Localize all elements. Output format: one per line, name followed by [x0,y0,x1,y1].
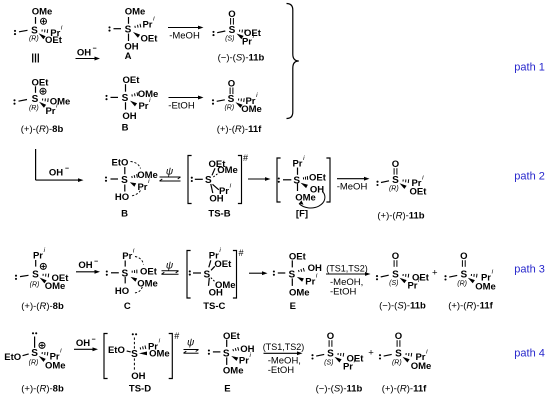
svg-text:Pr: Pr [142,19,152,30]
svg-text:OMe: OMe [125,7,146,18]
svg-text:S: S [31,348,38,359]
svg-text:B: B [121,208,128,219]
arrow -MeOH row2 [337,177,370,193]
svg-text:-MeOH: -MeOH [169,31,200,42]
svg-text:(−)-(S)-11b: (−)-(S)-11b [218,53,265,64]
svg-text:OMe: OMe [223,366,244,377]
svg-text:OMe: OMe [241,104,262,115]
svg-text:path 4: path 4 [514,348,545,360]
arrow OH- (III to A) [76,46,101,61]
svg-text:-MeOH: -MeOH [337,182,368,193]
svg-text:OEt: OEt [289,251,307,262]
svg-text:(R): (R) [29,36,39,43]
svg-text:OMe: OMe [411,361,432,372]
TBP intermediate C [106,248,158,312]
svg-text:(R): (R) [389,185,399,192]
svg-text:(S): (S) [225,36,234,43]
svg-text:path 2: path 2 [514,171,545,183]
svg-text:OH: OH [240,344,254,355]
svg-text:OMe: OMe [217,165,238,176]
svg-text:+: + [432,268,438,279]
svg-text:OH: OH [308,263,322,274]
arrow OH- row4 [74,336,98,351]
svg-text:(R): (R) [224,105,234,112]
svg-text:OH: OH [209,287,223,298]
svg-text:S: S [229,25,236,36]
svg-text:(+)-(R)-11f: (+)-(R)-11f [448,301,493,312]
svg-text:(+)-(R)-11f: (+)-(R)-11f [382,383,427,394]
svg-text:(−)-(S)-11b: (−)-(S)-11b [379,301,426,312]
svg-text:-EtOH: -EtOH [268,365,295,376]
svg-text:EtO: EtO [112,157,129,168]
svg-text:S: S [395,349,402,360]
right brace paths 1 [287,4,299,119]
svg-text:S: S [32,94,39,105]
svg-text:OMe: OMe [45,281,66,292]
transition state TS-B [188,153,248,219]
svg-text:S: S [460,269,467,280]
svg-text:path 3: path 3 [514,264,545,276]
svg-text:HO: HO [115,286,129,297]
arrow OH- row3 [76,258,100,273]
svg-text:OMe: OMe [137,279,158,290]
svg-text:OH: OH [76,338,90,349]
svg-text:−: − [93,46,97,53]
svg-text:O: O [327,331,334,342]
svg-text:S: S [228,94,235,105]
structure sulfonium (+)-(R)-8b row3 [15,247,69,312]
svg-text:−: − [65,165,69,172]
equilibrium psi row4 [184,338,199,354]
svg-text:#: # [174,331,179,341]
svg-text:(R): (R) [29,359,39,366]
transition state TS-C [187,247,244,312]
svg-text:ψ: ψ [166,260,174,271]
svg-text:TS-D: TS-D [129,384,151,395]
sulfoxide (+)-(R)-11b row2 [376,159,427,221]
svg-text:OMe: OMe [138,89,159,100]
sulfurane intermediate A [108,7,158,62]
svg-text:OMe: OMe [475,282,496,293]
arrow TS1 TS2 row3 [326,263,371,297]
svg-text:path 1: path 1 [514,62,545,74]
svg-text:A: A [125,51,132,62]
intermediate [F] [277,155,330,220]
svg-text:Pr: Pr [45,106,55,117]
arrow TS1 TS2 row4 [263,342,305,376]
arrow TS-C to E [249,272,263,274]
transition state TS-D [104,331,179,395]
svg-text:OEt: OEt [140,267,158,278]
svg-text:ψ: ψ [187,338,195,349]
arrow TS-B to F [248,178,266,180]
svg-text:(R): (R) [392,359,402,366]
svg-text:OMe: OMe [32,7,53,18]
svg-text:B: B [122,123,129,134]
svg-text:OEt: OEt [223,331,241,342]
svg-text:(+)-(R)-11f: (+)-(R)-11f [217,124,262,135]
svg-text:OH: OH [78,260,92,271]
svg-text:OEt: OEt [45,35,63,46]
svg-text:#: # [243,153,248,163]
svg-text:(R): (R) [29,105,39,112]
svg-text:S: S [392,175,399,186]
svg-text:OMe: OMe [289,287,310,298]
svg-text:S: S [392,269,399,280]
svg-text:C: C [124,301,131,312]
svg-text:(TS1,TS2): (TS1,TS2) [263,342,305,352]
intermediate E row4 [208,331,255,395]
svg-text:(R): (R) [30,282,40,289]
svg-text:Pr: Pr [122,251,132,262]
sulfoxide (-)-(S)-11b row1 [212,9,264,64]
svg-text:E: E [290,301,296,312]
svg-text:OEt: OEt [410,187,428,198]
svg-text:O: O [395,331,402,342]
svg-text:Pr: Pr [137,182,147,193]
svg-text:(S): (S) [324,359,333,366]
svg-text:Pr: Pr [407,281,417,292]
svg-text:OMe: OMe [149,348,170,359]
svg-text:S: S [131,349,138,360]
equilibrium psi row3 [162,260,179,274]
arrow -MeOH (A to 11b) [168,26,204,42]
svg-text:#: # [238,248,243,258]
svg-text:OMe: OMe [295,193,316,204]
svg-text:TS-C: TS-C [203,301,225,312]
svg-text:(S): (S) [389,280,398,287]
sulfoxide (+)-(R)-11f row3 [444,251,495,312]
sulfoxide (-)-(S)-11b row4 [311,331,364,394]
svg-text:−: − [94,258,98,265]
svg-text:Pr: Pr [242,37,252,48]
svg-text:OEt: OEt [214,259,232,270]
svg-text:O: O [228,78,235,89]
svg-text:O: O [392,159,399,170]
svg-text:O: O [228,9,235,20]
svg-text:TS-B: TS-B [208,208,230,219]
svg-text:(+)-(R)-8b: (+)-(R)-8b [21,384,64,395]
svg-text:S: S [32,269,39,280]
svg-text:-EtOH: -EtOH [330,287,357,298]
sulfurane intermediate B row1 [105,75,158,133]
structure sulfonium (+)-(R)-8b form 2 [13,77,70,134]
svg-text:OH: OH [77,47,91,58]
svg-text:OEt: OEt [32,77,50,88]
svg-text:OH: OH [209,194,223,205]
svg-text:O: O [460,251,467,262]
svg-text:O: O [392,251,399,262]
sulfoxide (-)-(S)-11b row3 [376,251,430,312]
svg-text:S: S [121,175,128,186]
arrow -EtOH (B to 11f) [168,96,203,112]
svg-text:+: + [368,348,374,359]
structure sulfonium (+)-(R)-8b row4 [4,332,65,394]
svg-text:Pr: Pr [305,276,315,287]
svg-text:OH: OH [122,111,136,122]
svg-text:OMe: OMe [45,360,66,371]
svg-text:S: S [327,349,334,360]
svg-text:Pr: Pr [33,251,43,262]
sulfoxide (+)-(R)-11f row4 [379,331,431,394]
structure III sulfonium cation (R)-8b form 1 [14,7,63,46]
svg-text:EtO: EtO [4,352,21,363]
svg-text:OEt: OEt [309,173,327,184]
intermediate E row3 [273,251,322,312]
TBP intermediate B row2 [105,157,158,219]
svg-text:(−)-(S)-11b: (−)-(S)-11b [316,383,363,394]
svg-text:OEt: OEt [141,34,159,45]
sulfoxide (+)-(R)-11f row1 [212,78,262,134]
svg-text:−: − [92,336,96,343]
svg-text:(+)-(R)-8b: (+)-(R)-8b [21,301,64,312]
equilibrium psi row2 [160,166,181,181]
svg-text:-EtOH: -EtOH [168,101,195,112]
svg-text:HO: HO [115,192,129,203]
svg-text:(R): (R) [457,280,467,287]
svg-text:E: E [224,384,230,395]
svg-text:[F]: [F] [296,208,308,219]
svg-text:ψ: ψ [166,166,174,177]
svg-text:Pr: Pr [343,361,353,372]
svg-text:(+)-(R)-8b: (+)-(R)-8b [21,124,64,135]
svg-text:Pr: Pr [138,101,148,112]
svg-text:(+)-(R)-11b: (+)-(R)-11b [377,210,424,221]
branch arrow OH- row2 [36,149,84,182]
svg-text:EtO: EtO [108,345,125,356]
identity sign III [33,54,39,63]
svg-text:OH: OH [131,371,145,382]
svg-text:S: S [293,175,300,186]
svg-text:OH: OH [49,167,63,178]
svg-text:(TS1,TS2): (TS1,TS2) [326,263,368,273]
